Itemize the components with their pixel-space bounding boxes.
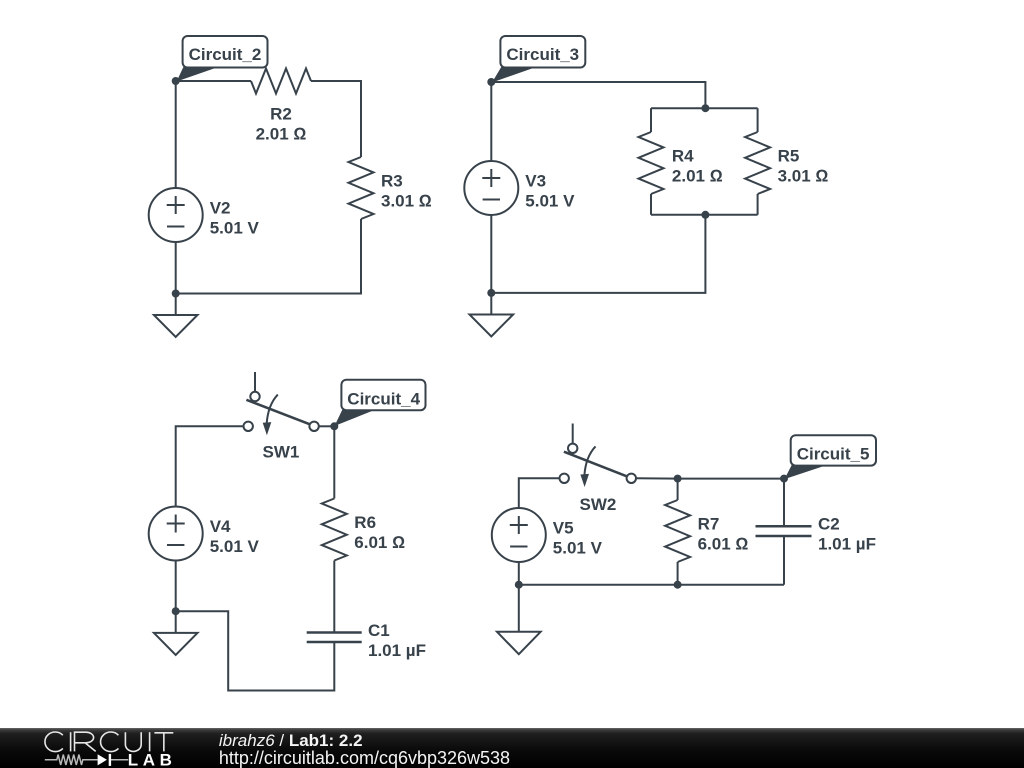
wire R7 node down — [677, 479, 679, 500]
logo diode bar — [109, 754, 111, 766]
switch SW1 blade — [246, 400, 310, 425]
left branch wire lower — [650, 194, 652, 215]
callout Circuit_2 — [177, 67, 219, 82]
svg-text:V3: V3 — [525, 172, 546, 191]
node top-left circuit2 — [172, 77, 180, 85]
wire parallel bottom node down and left — [491, 215, 705, 293]
label R5 value — [778, 147, 829, 186]
voltage source V3 — [464, 161, 518, 215]
svg-text:3.01 Ω: 3.01 Ω — [381, 192, 432, 211]
label C1 value — [368, 621, 426, 660]
footer bar — [0, 728, 1024, 768]
label SW1 — [263, 442, 300, 461]
logo letter U — [125, 732, 141, 751]
resistor R4 — [639, 132, 664, 194]
wire V4 bottom to node — [175, 561, 177, 612]
svg-text:5.01 V: 5.01 V — [525, 192, 575, 211]
switch SW2 left terminal — [560, 474, 569, 483]
callout Circuit_3 — [492, 67, 537, 83]
svg-text:V5: V5 — [553, 519, 574, 538]
node R7 bottom — [674, 581, 682, 589]
svg-text:5.01 V: 5.01 V — [210, 537, 260, 556]
logo letter R — [75, 732, 96, 751]
wire node to V3 top — [490, 82, 492, 161]
switch SW2 arrowhead — [580, 474, 589, 487]
svg-text:V4: V4 — [210, 517, 231, 536]
resistor R2 — [251, 69, 311, 94]
wire C2 bottom — [783, 536, 785, 585]
label V2 value — [210, 199, 260, 238]
ground (circuit 2) — [175, 294, 177, 316]
wire node to V2 top — [175, 81, 177, 188]
switch SW2 top stub — [572, 424, 574, 444]
ground (circuit 5) — [518, 585, 520, 632]
svg-text:1.01 µF: 1.01 µF — [368, 641, 426, 660]
node bottom-left circuit3 — [487, 289, 495, 297]
capacitor C2 — [756, 526, 812, 536]
svg-text:SW1: SW1 — [263, 442, 300, 461]
wire node down to R6 — [333, 426, 335, 498]
switch SW2 top terminal — [568, 444, 577, 453]
wire V3 bottom to node — [490, 215, 492, 293]
wire left terminal to V5 — [519, 478, 560, 508]
node R7 top — [674, 475, 682, 483]
svg-text:C2: C2 — [818, 515, 840, 534]
svg-text:2.01 Ω: 2.01 Ω — [672, 167, 723, 186]
node top-left circuit3 — [487, 78, 495, 86]
logo LAB text — [128, 751, 177, 768]
wire V5 bottom to rail — [518, 562, 520, 585]
resistor R6 — [322, 499, 347, 561]
node right of SW1 — [330, 422, 338, 430]
label V4 value — [210, 517, 260, 556]
resistor R7 — [665, 500, 690, 562]
svg-text:R3: R3 — [381, 172, 403, 191]
voltage source V5 — [492, 508, 546, 562]
label V3 value — [525, 172, 575, 211]
switch SW1 arrowhead — [263, 422, 272, 435]
voltage source V2 — [149, 188, 203, 242]
logo resistor-diode line — [45, 755, 128, 765]
svg-text:R6: R6 — [354, 513, 376, 532]
svg-text:SW2: SW2 — [580, 495, 617, 514]
capacitor C1 — [307, 633, 362, 643]
switch SW2 blade — [564, 452, 627, 477]
svg-text:2.01 Ω: 2.01 Ω — [256, 125, 307, 144]
label R2 value — [256, 105, 307, 144]
label R7 value — [698, 515, 749, 554]
svg-text:R4: R4 — [672, 147, 694, 166]
logo letter I1 — [70, 732, 72, 751]
svg-text:Circuit_4: Circuit_4 — [347, 389, 420, 408]
svg-text:6.01 Ω: 6.01 Ω — [698, 535, 749, 554]
node bottom-left circuit4 — [172, 607, 180, 615]
top rail of parallel pair — [651, 107, 758, 109]
switch SW2 actuation arc — [584, 446, 595, 475]
wire V2 bottom to node — [175, 242, 177, 294]
svg-text:5.01 V: 5.01 V — [210, 219, 260, 238]
svg-text:Circuit_3: Circuit_3 — [506, 45, 579, 64]
switch SW1 right terminal — [309, 422, 318, 431]
wire top from node to R2 — [176, 80, 251, 82]
node parallel bottom — [701, 211, 709, 219]
wire R6 to C1 — [333, 561, 335, 633]
wire right terminal to node — [319, 425, 335, 427]
svg-text:Circuit_5: Circuit_5 — [797, 444, 870, 463]
ground (circuit 4) — [175, 611, 177, 633]
label C2 value — [818, 515, 876, 554]
svg-text:R7: R7 — [698, 515, 720, 534]
logo letter T — [154, 733, 173, 752]
logo letter C2 — [101, 732, 119, 752]
svg-text:5.01 V: 5.01 V — [553, 539, 603, 558]
switch SW2 right terminal — [627, 474, 636, 483]
switch SW1 actuation arc — [267, 395, 278, 424]
wire R7 node to C2 node — [678, 478, 784, 480]
label V5 value — [553, 519, 603, 558]
label R6 value — [354, 513, 405, 552]
svg-text:LAB: LAB — [128, 751, 177, 768]
switch SW1 left terminal — [244, 422, 253, 431]
label SW2 — [580, 495, 617, 514]
left branch wire upper — [650, 108, 652, 132]
switch SW1 top stub — [254, 372, 256, 392]
callout Circuit_5 — [785, 465, 828, 479]
callout Circuit_4 — [335, 410, 376, 426]
bottom rail circuit5 — [519, 584, 784, 586]
node bottom-left circuit2 — [172, 290, 180, 298]
switch SW1 top terminal — [250, 392, 259, 401]
label R3 value — [381, 172, 432, 211]
wire right terminal to R7 node — [636, 477, 678, 479]
ground (circuit 3) — [490, 293, 492, 315]
svg-text:http://circuitlab.com/cq6vbp32: http://circuitlab.com/cq6vbp326w538 — [219, 748, 510, 768]
logo diode triangle — [98, 754, 107, 765]
svg-text:V2: V2 — [210, 199, 231, 218]
wire left terminal to left rail — [176, 426, 244, 506]
wire top from node right and down to parallel top node — [491, 82, 705, 108]
voltage source V4 — [149, 507, 203, 561]
svg-text:C1: C1 — [368, 621, 390, 640]
resistor R3 — [349, 157, 374, 219]
resistor R5 — [745, 132, 770, 194]
logo letter C1 — [45, 732, 63, 752]
svg-text:R2: R2 — [270, 105, 292, 124]
node C2 top — [780, 475, 788, 483]
wire R3 down to bottom rail — [176, 219, 361, 294]
wire R7 bottom — [677, 562, 679, 585]
label R4 value — [672, 147, 723, 186]
node V5 bottom — [515, 581, 523, 589]
right branch wire upper — [757, 108, 759, 132]
svg-text:6.01 Ω: 6.01 Ω — [354, 533, 405, 552]
logo CIRCUIT wordmark — [45, 732, 173, 752]
svg-text:Circuit_2: Circuit_2 — [189, 45, 262, 64]
bottom rail of parallel pair — [651, 214, 758, 216]
logo letter I2 — [149, 732, 151, 751]
node parallel top — [701, 104, 709, 112]
wire R2 to top-right corner and down — [311, 81, 361, 157]
wire C1 bottom loop to ground node — [176, 611, 335, 690]
wire C2 node down — [783, 479, 785, 527]
svg-text:1.01 µF: 1.01 µF — [818, 535, 876, 554]
svg-text:ibrahz6 / Lab1: 2.2: ibrahz6 / Lab1: 2.2 — [219, 731, 363, 750]
svg-text:3.01 Ω: 3.01 Ω — [778, 167, 829, 186]
right branch wire lower — [757, 194, 759, 215]
svg-text:R5: R5 — [778, 147, 800, 166]
